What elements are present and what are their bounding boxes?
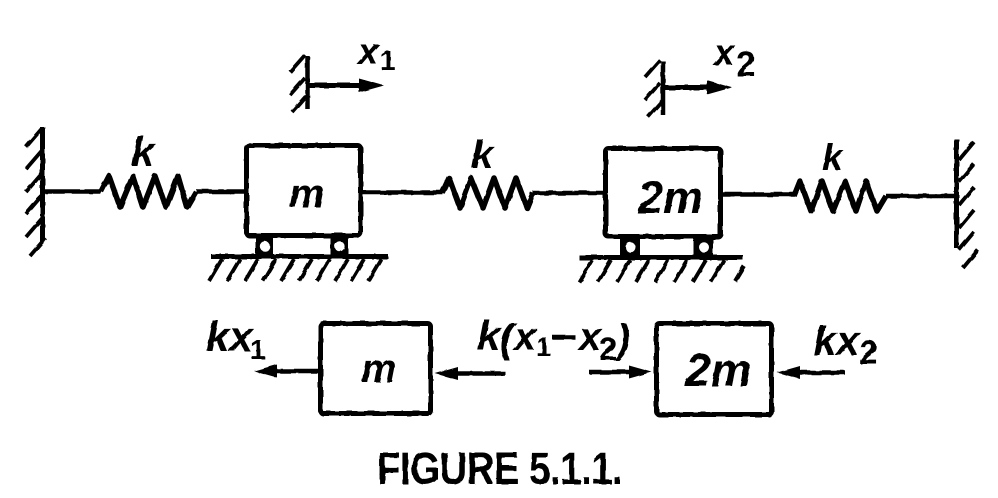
- svg-text:1: 1: [380, 45, 396, 76]
- caption FIGURE 5.1.1.: [377, 443, 622, 494]
- reference mark x2: [645, 60, 732, 117]
- force arrow kx2: [777, 366, 845, 379]
- svg-text:1: 1: [250, 334, 266, 365]
- force arrow k(x1-x2) into m: [435, 367, 505, 380]
- FBD mass 2m box: [657, 324, 772, 415]
- svg-text:kx: kx: [813, 317, 861, 364]
- spring K3: [794, 181, 886, 211]
- svg-text:2: 2: [736, 45, 755, 84]
- wire mass m to spring K2: [361, 190, 443, 195]
- svg-text:k: k: [822, 137, 845, 178]
- right wall: [957, 139, 979, 268]
- svg-text:x: x: [512, 315, 538, 359]
- wire mass 2m to spring K3: [721, 192, 795, 197]
- wheels of mass 2m: [620, 239, 713, 256]
- force arrow kx1: [254, 365, 318, 378]
- svg-text:FIGURE 5.1.1.: FIGURE 5.1.1.: [377, 443, 622, 494]
- svg-text:2: 2: [599, 331, 617, 367]
- svg-text:1: 1: [536, 332, 551, 362]
- svg-text:k: k: [131, 128, 157, 175]
- ground under mass m: [209, 257, 388, 282]
- wire spring K2 to mass 2m: [533, 191, 605, 196]
- mass 2m box: [606, 149, 721, 237]
- svg-text:x: x: [356, 31, 380, 72]
- wire spring K3 to right wall: [886, 194, 955, 199]
- FBD mass m box: [321, 324, 431, 414]
- spring K1: [101, 176, 196, 207]
- left wall: [26, 127, 46, 256]
- svg-text:m: m: [289, 172, 325, 216]
- svg-text:kx: kx: [206, 313, 254, 360]
- wire wall to spring K1: [44, 189, 101, 194]
- svg-text:k: k: [471, 133, 495, 177]
- ground under mass 2m: [579, 258, 744, 283]
- svg-text:2m: 2m: [637, 172, 703, 223]
- svg-text:m: m: [361, 347, 397, 391]
- mass m box: [247, 146, 361, 236]
- spring K2: [442, 178, 533, 208]
- svg-text:2: 2: [859, 334, 878, 372]
- wire spring K1 to mass m: [196, 189, 246, 194]
- wheels of mass m: [256, 237, 349, 255]
- svg-text:x: x: [712, 32, 736, 73]
- svg-text:2m: 2m: [684, 344, 751, 396]
- reference mark x1: [290, 55, 384, 112]
- force arrow into 2m: [589, 366, 652, 379]
